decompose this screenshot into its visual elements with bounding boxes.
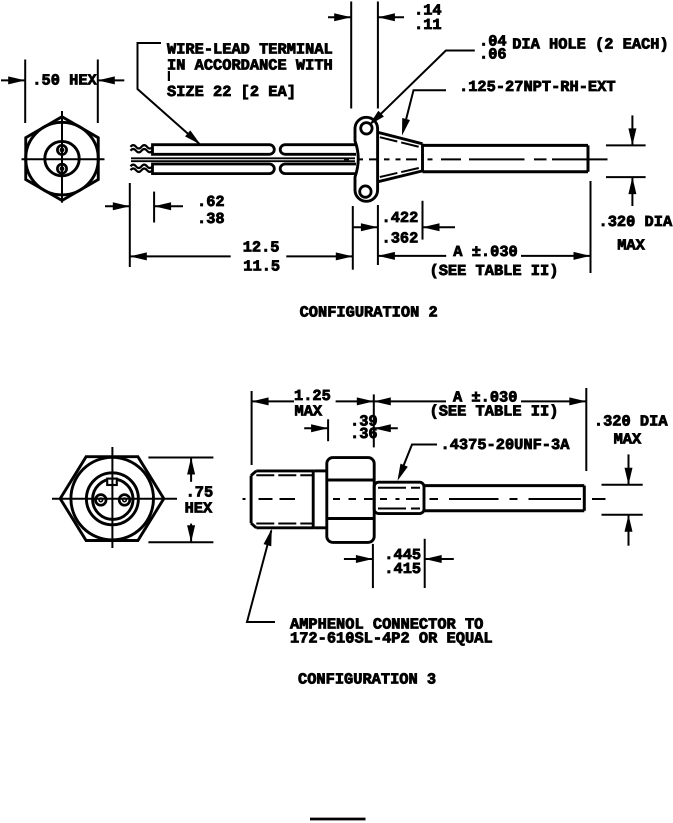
svg-text:172-610SL-4P2 OR EQUAL: 172-610SL-4P2 OR EQUAL [290, 630, 493, 648]
dimension .50 HEX [1, 60, 124, 124]
dimension 12.5/11.5 [130, 206, 353, 270]
lower lead wire left segment [153, 164, 275, 174]
connector hex end view (config 3) [60, 457, 164, 541]
leader to cone [403, 90, 446, 131]
svg-text:HEX: HEX [185, 499, 213, 517]
upper wire hole [57, 145, 66, 154]
chamfer circle [26, 122, 99, 195]
hexagon outline flat-top [60, 457, 164, 541]
svg-text:SIZE 22 [2 EA]: SIZE 22 [2 EA] [167, 83, 296, 101]
probe tube (config 3) [424, 486, 584, 511]
inner bore circle [45, 141, 79, 175]
probe tube (config 2) [423, 145, 589, 171]
NPT taper cone [378, 132, 423, 182]
svg-text:.36: .36 [350, 425, 378, 443]
svg-text:MAX: MAX [295, 403, 323, 421]
inner conductor pair lines [131, 158, 355, 161]
svg-text:.11: .11 [414, 16, 442, 34]
hexagon outline [26, 117, 99, 201]
svg-text:MAX: MAX [614, 431, 642, 449]
dimension .445/.415 [344, 539, 454, 588]
dimension 1.25 MAX [252, 391, 374, 465]
lower wire hole [57, 164, 66, 173]
bottom page mark line [310, 818, 366, 821]
connector right face [312, 471, 315, 528]
svg-text:.415: .415 [384, 560, 421, 578]
flange upper hole [361, 123, 372, 134]
svg-text:.4375-20UNF-3A: .4375-20UNF-3A [441, 436, 571, 454]
svg-text:A ±.030: A ±.030 [453, 243, 517, 261]
svg-text:11.5: 11.5 [243, 258, 280, 276]
amphenol connector body (side view) [251, 471, 328, 528]
svg-text:.362: .362 [382, 229, 419, 247]
svg-text:.320 DIA: .320 DIA [594, 412, 668, 430]
dimension .422/.362 [354, 201, 456, 265]
svg-text:.422: .422 [382, 209, 419, 227]
dimension .320 DIA MAX (config 3) [602, 454, 643, 545]
leader to connector [247, 531, 275, 623]
wire break squiggles upper wire [131, 145, 153, 172]
svg-text:.320 DIA: .320 DIA [599, 213, 673, 231]
connector shell circle [86, 473, 138, 525]
right pin [119, 495, 130, 506]
leader from wire-lead note to upper wire [138, 43, 200, 144]
dimension .39/.36 [304, 419, 398, 441]
dimension .62/.38 [105, 183, 183, 267]
left pin [96, 495, 107, 506]
centerline config 2 [344, 158, 608, 160]
hex nut (side view, config 3) [327, 458, 374, 543]
svg-text:DIA HOLE (2 EACH): DIA HOLE (2 EACH) [512, 36, 669, 54]
threaded stud .4375-20UNF [374, 482, 424, 513]
dimension .75 HEX [148, 458, 213, 543]
end view centerlines [52, 447, 177, 548]
hex fitting end view (config 2) [26, 117, 99, 201]
upper lead wire left segment [153, 145, 357, 174]
upper lead wire right segment [280, 145, 356, 155]
svg-text:WIRE-LEAD TERMINAL: WIRE-LEAD TERMINAL [167, 40, 333, 58]
svg-text:IN ACCORDANCE WITH: IN ACCORDANCE WITH [167, 57, 333, 75]
centerline config 3 [243, 498, 606, 500]
svg-text:.125-27NPT-RH-EXT: .125-27NPT-RH-EXT [459, 78, 616, 96]
leader to stud [399, 445, 437, 478]
dimension .320 DIA MAX (config 2) [606, 115, 646, 206]
flange lower hole [360, 186, 371, 197]
cone thread minor lines [380, 137, 421, 177]
keyway [107, 479, 117, 485]
neck top/bottom [315, 469, 328, 472]
svg-text:.50 HEX: .50 HEX [32, 72, 97, 90]
svg-text:.38: .38 [197, 210, 225, 228]
lower lead wire right segment [280, 164, 356, 174]
svg-text:MAX: MAX [617, 236, 645, 254]
wire break squiggles lower wire [131, 165, 153, 168]
svg-text:(SEE TABLE II): (SEE TABLE II) [430, 403, 559, 421]
svg-text:CONFIGURATION 3: CONFIGURATION 3 [298, 671, 436, 689]
dimension A +-.030 (config 2) [378, 181, 591, 273]
chamfer circle [71, 457, 154, 540]
svg-text:12.5: 12.5 [243, 239, 280, 257]
dimension .14/.11 [328, 2, 404, 109]
svg-text:(SEE TABLE II): (SEE TABLE II) [430, 262, 559, 280]
svg-text:.62: .62 [197, 193, 225, 211]
connector thread dashed lines [256, 475, 313, 523]
redacted mark [168, 71, 170, 81]
leader to flange hole [372, 51, 475, 124]
dimension A +-.030 (config 3) [374, 388, 587, 471]
hex end view centerlines [22, 111, 105, 203]
insert face circle [93, 479, 133, 519]
flange / terminal block (config 2 fitting) [355, 117, 423, 201]
svg-text:.06: .06 [479, 45, 507, 63]
svg-text:CONFIGURATION 2: CONFIGURATION 2 [300, 304, 438, 322]
